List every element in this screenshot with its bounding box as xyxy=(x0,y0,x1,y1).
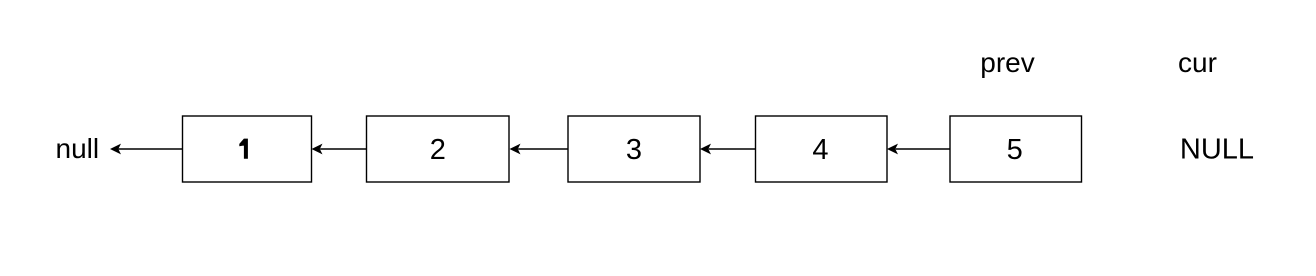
node box 4 xyxy=(756,116,888,182)
svg-text:prev: prev xyxy=(980,47,1034,78)
arrowhead into box1 xyxy=(312,144,323,155)
arrowhead to null xyxy=(110,144,121,155)
wire box3 to box2 xyxy=(518,148,568,150)
wire box4 to box3 xyxy=(709,148,756,150)
arrowhead into box2 xyxy=(510,144,521,155)
svg-text:null: null xyxy=(56,133,100,164)
node box 3 xyxy=(568,116,700,182)
svg-text:NULL: NULL xyxy=(1180,133,1254,165)
node box 5 xyxy=(950,116,1082,182)
svg-text:3: 3 xyxy=(626,134,642,166)
arrowhead into box3 xyxy=(700,144,711,155)
value label 1 xyxy=(239,139,248,159)
svg-text:2: 2 xyxy=(430,134,446,166)
wire box5 to box4 xyxy=(896,148,950,150)
wire box2 to box1 xyxy=(320,148,366,150)
svg-text:5: 5 xyxy=(1007,134,1023,166)
node box 1 xyxy=(183,116,312,182)
svg-text:4: 4 xyxy=(812,134,828,166)
node box 2 xyxy=(367,116,510,182)
arrowhead into box4 xyxy=(887,144,898,155)
wire box1 to null xyxy=(119,148,183,150)
svg-text:cur: cur xyxy=(1178,47,1217,78)
